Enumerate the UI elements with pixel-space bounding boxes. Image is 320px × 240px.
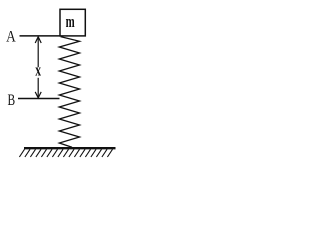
spring xyxy=(59,37,79,148)
svg-text:m: m xyxy=(66,14,75,32)
svg-text:x: x xyxy=(35,61,41,80)
arrow down (to line B) xyxy=(35,78,41,98)
ground hatching xyxy=(19,149,112,157)
line B (level line) xyxy=(18,98,60,100)
arrow up (to line A) xyxy=(35,37,41,67)
mass block m (box) xyxy=(60,9,85,36)
ground line xyxy=(24,147,116,149)
svg-text:B: B xyxy=(7,91,15,108)
svg-text:A: A xyxy=(6,29,16,46)
line A (level line) xyxy=(20,35,61,37)
